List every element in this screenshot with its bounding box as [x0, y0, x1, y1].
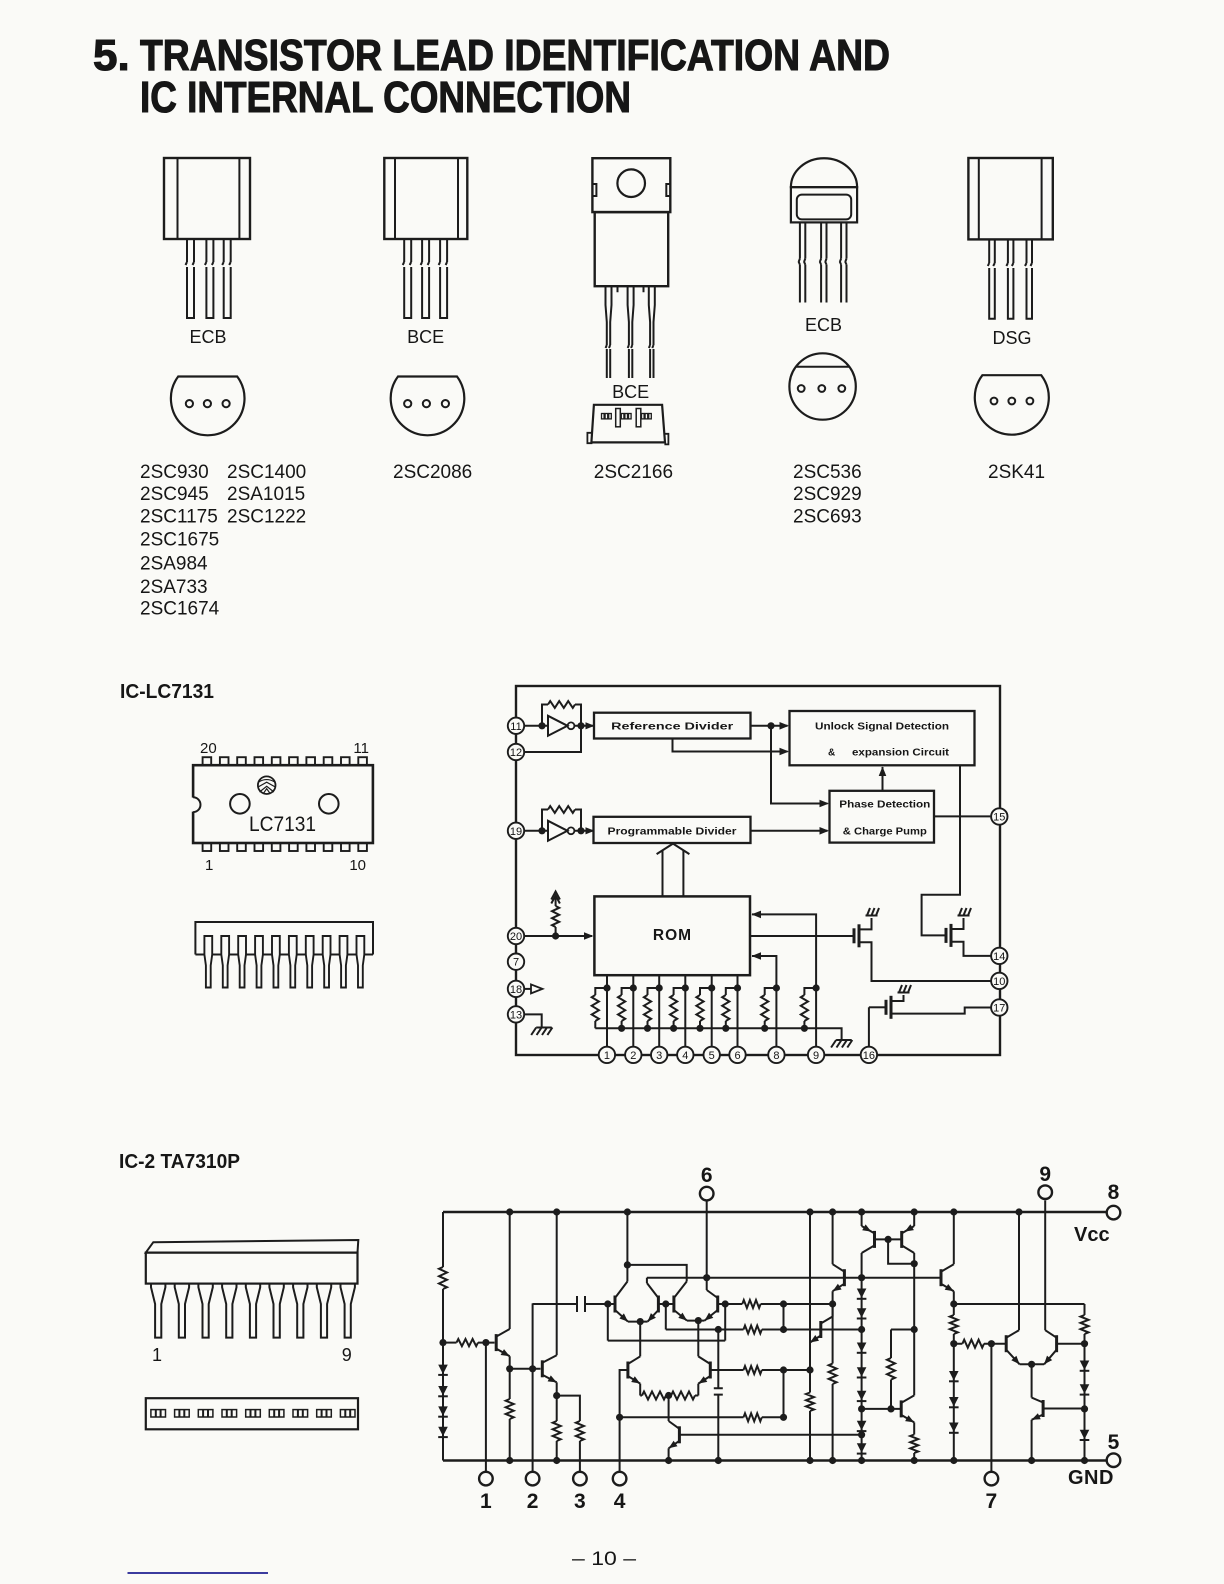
svg-text:20: 20 — [510, 931, 522, 943]
svg-text:8: 8 — [773, 1050, 779, 1062]
wire Q9 emitter to GND — [665, 1448, 672, 1464]
transistor Q1 — [496, 1329, 510, 1356]
block Reference Divider — [594, 713, 751, 739]
svg-text:2SC536: 2SC536 — [793, 462, 862, 483]
cross-coupling wire Q3 base to Q6 base — [608, 1304, 725, 1341]
svg-text:8: 8 — [1108, 1181, 1120, 1204]
svg-text:IC-LC7131: IC-LC7131 — [120, 681, 214, 703]
wire Reference Divider output to Unlock block — [751, 722, 790, 730]
svg-text:Unlock Signal Detection: Unlock Signal Detection — [815, 722, 949, 733]
TO-92 bottom view (ECB group) — [171, 377, 245, 436]
svg-text:1: 1 — [205, 857, 213, 874]
part label 2SK41 — [988, 462, 1045, 483]
right resistor R18 and diodes D15-D17 — [1080, 1304, 1090, 1464]
pin 9 wire into ROM — [752, 911, 820, 1047]
block diagram pin circles — [508, 718, 1008, 1064]
svg-text:2SC2166: 2SC2166 — [594, 462, 673, 483]
part label 2SC2166 — [594, 462, 673, 483]
pin 7 stem — [990, 1344, 992, 1472]
part list column 1 — [140, 462, 220, 620]
svg-text:2SC929: 2SC929 — [793, 484, 862, 505]
wire quad B emitter node down — [697, 1321, 699, 1357]
output pair Q16 Q17 — [1006, 1330, 1088, 1368]
feedback network resistor R16 — [887, 1326, 918, 1413]
pull-up resistor with supply arrow at pin 20 input — [551, 892, 560, 940]
wire pin 12 to inverter output — [524, 726, 581, 752]
MOSFET Q2 — [946, 908, 992, 956]
wire Q12 collector to Vcc — [829, 1208, 836, 1264]
svg-text:2: 2 — [630, 1050, 636, 1062]
transistor Q5 (quad third) — [674, 1282, 705, 1325]
svg-text:3: 3 — [574, 1490, 586, 1513]
svg-text:GND: GND — [1068, 1467, 1114, 1489]
transistor Q4 (quad second) — [647, 1283, 659, 1322]
transistor Q12 — [833, 1264, 845, 1291]
svg-text:& Charge Pump: & Charge Pump — [843, 827, 927, 838]
wire Q1 emitter node — [506, 1356, 540, 1372]
svg-text:Phase Detection: Phase Detection — [839, 800, 930, 811]
wire Q2 emitter node — [553, 1382, 580, 1421]
pin 6 collector line — [647, 1274, 941, 1281]
wire Unlock block to MOSFET Q2 gate — [922, 765, 960, 935]
wire Q6 base to R1 — [718, 1300, 743, 1307]
bottom view (2SC536 group) — [789, 353, 855, 419]
svg-text:1: 1 — [152, 1345, 162, 1365]
svg-text:IC INTERNAL CONNECTION: IC INTERNAL CONNECTION — [140, 73, 631, 122]
svg-text:ROM: ROM — [653, 927, 692, 944]
svg-text:2SA733: 2SA733 — [140, 577, 208, 598]
svg-text:Vcc: Vcc — [1074, 1224, 1110, 1246]
pull-down resistor ladder — [592, 988, 842, 1039]
svg-text:DSG: DSG — [992, 328, 1031, 348]
wire R1/R2 right ends tie — [783, 1304, 785, 1330]
block Unlock Signal Detection & expansion Circuit — [790, 711, 975, 765]
svg-text:2SC2086: 2SC2086 — [393, 462, 472, 483]
svg-text:expansion Circuit: expansion Circuit — [852, 748, 950, 759]
wire Q7 collector to quad A node — [639, 1322, 641, 1357]
base line with resistor R5 to Q8 — [710, 1366, 813, 1374]
svg-text:2: 2 — [527, 1490, 539, 1513]
page number — [572, 1549, 637, 1570]
svg-text:2SC945: 2SC945 — [140, 484, 209, 505]
svg-text:3: 3 — [656, 1050, 662, 1062]
block Programmable Divider — [594, 817, 751, 843]
ROM output wire to MOSFET Q1 gate — [750, 935, 853, 937]
svg-text:1: 1 — [480, 1490, 492, 1513]
transistor Q9 current source — [669, 1396, 680, 1449]
transistor Q7 (diff pair left) — [628, 1356, 640, 1383]
svg-text:ECB: ECB — [805, 315, 842, 335]
transistor package dome front view (2SC536 group) — [791, 158, 857, 302]
svg-text:9: 9 — [1039, 1163, 1051, 1186]
capacitor C2 to GND — [714, 1330, 723, 1465]
TA7310P GND rail — [443, 1459, 1107, 1462]
transistor package TO-220 front view (2SC2166) — [592, 158, 670, 378]
svg-text:13: 13 — [510, 1009, 522, 1021]
TO-220 bottom view (2SC2166) — [587, 405, 668, 445]
resistor R11 to Q1 base — [443, 1339, 495, 1346]
big bus arrow ROM to Programmable Divider — [657, 844, 690, 897]
inverter/oscillator buffer at pin 11 with feedback resistor — [524, 701, 595, 736]
svg-text:6: 6 — [701, 1164, 713, 1187]
svg-text:12: 12 — [510, 747, 522, 759]
svg-text:Programmable Divider: Programmable Divider — [608, 827, 737, 838]
wire R5/R6 right ends tie — [783, 1370, 785, 1417]
resistor R14 to pin 3 — [576, 1421, 584, 1472]
svg-text:BCE: BCE — [407, 327, 444, 347]
wire Programmable Divider output to Phase Detection — [751, 827, 830, 835]
svg-text:2SA984: 2SA984 — [140, 554, 208, 575]
svg-text:5: 5 — [1108, 1431, 1120, 1454]
resistor R9 Q14 emitter — [950, 1304, 958, 1347]
transistor Q3 (quad left) — [615, 1282, 648, 1326]
wire Q4/Q5 base tie — [658, 1300, 674, 1329]
svg-text:LC7131: LC7131 — [249, 813, 316, 836]
pin 9 stem to Q17 collector — [1044, 1200, 1046, 1330]
svg-text:17: 17 — [993, 1003, 1005, 1015]
resistor R15 to output pair base — [954, 1340, 1006, 1348]
pin 1 stem — [485, 1343, 487, 1472]
svg-text:2SC930: 2SC930 — [140, 462, 209, 483]
svg-text:5: 5 — [709, 1050, 715, 1062]
LC7131 block diagram outer boundary — [516, 686, 1000, 1055]
svg-text:15: 15 — [993, 812, 1005, 824]
svg-text:9: 9 — [342, 1345, 352, 1365]
svg-text:11: 11 — [510, 721, 521, 733]
PNP current mirror Q10 Q11 — [858, 1208, 918, 1395]
svg-text:6: 6 — [734, 1050, 740, 1062]
part label 2SC2086 — [393, 462, 472, 483]
ground at resistor ladder bus — [831, 1040, 852, 1048]
transistor Q18 — [1028, 1364, 1085, 1464]
label ECB — [189, 327, 226, 347]
transistor package TO-92 front view (2SC2086) — [384, 158, 467, 318]
svg-text:4: 4 — [682, 1050, 688, 1062]
diode string D1-D4 — [438, 1365, 448, 1438]
wire Q14 collector to Vcc — [950, 1208, 957, 1264]
TA7310P pin circles and labels — [479, 1163, 1120, 1513]
inner base line with resistor R2 — [666, 1326, 865, 1334]
MOSFET Q3 — [869, 985, 992, 1047]
wire Vcc to Q13 emitter and resistor R8 — [806, 1208, 814, 1464]
svg-text:4: 4 — [614, 1490, 626, 1513]
pin 6 stem — [706, 1200, 708, 1277]
transistor Q8 (diff pair right) — [698, 1356, 710, 1383]
pin 2 stem — [532, 1303, 534, 1471]
wire Q3 collector to Vcc — [624, 1208, 631, 1281]
wire pin 13 to ground — [524, 1014, 542, 1026]
svg-text:2SC1222: 2SC1222 — [227, 507, 306, 528]
svg-text:1: 1 — [604, 1050, 610, 1062]
IC LC7131 DIP-20 top view — [191, 740, 373, 874]
section label IC-LC7131 — [120, 681, 214, 703]
label DSG — [992, 328, 1031, 348]
block ROM — [594, 896, 750, 975]
section label IC-2 TA7310P — [119, 1151, 240, 1173]
TO-92 bottom view (2SC2086) — [391, 377, 465, 436]
IC LC7131 DIP-20 side view — [195, 922, 373, 988]
wire Q9 base to bias chain — [679, 1431, 865, 1438]
transistor package front view (2SK41) — [968, 158, 1052, 319]
label BCE — [407, 327, 444, 347]
open arrow at pin 18 — [524, 984, 543, 993]
svg-text:5.: 5. — [93, 31, 130, 80]
svg-text:IC-2 TA7310P: IC-2 TA7310P — [119, 1151, 240, 1173]
svg-text:14: 14 — [993, 951, 1005, 963]
wire collector cross-tie to Q5 — [627, 1265, 686, 1282]
bottom view (2SK41) — [975, 375, 1049, 434]
transistor Q13 — [810, 1317, 833, 1343]
emitter degeneration resistors R3 R4 — [640, 1384, 698, 1400]
resistor R13 Q2 emitter to GND — [553, 1396, 561, 1465]
wire Q16 collector to Vcc — [1015, 1208, 1022, 1330]
svg-text:2SC1400: 2SC1400 — [227, 462, 306, 483]
transistor Q6 (quad right) — [705, 1290, 718, 1321]
svg-text:10: 10 — [993, 976, 1005, 988]
svg-text:– 10 –: – 10 – — [572, 1549, 637, 1570]
transistor Q15 — [858, 1395, 914, 1422]
svg-text:2SC1175: 2SC1175 — [140, 507, 218, 528]
line with resistor R6 to pin 4 — [620, 1413, 788, 1421]
svg-text:10: 10 — [349, 857, 366, 874]
ROM output column wires to pins 1-6 — [603, 975, 741, 1046]
pin 8 wire into ROM — [752, 952, 781, 1046]
resistor R7 to GND — [829, 1304, 837, 1464]
svg-text:11: 11 — [353, 740, 369, 757]
svg-text:18: 18 — [510, 984, 522, 996]
bottom blue rule — [128, 1572, 269, 1574]
svg-text:7: 7 — [513, 957, 519, 969]
block Phase Detection & Charge Pump — [830, 791, 935, 843]
resistor R1 — [742, 1300, 832, 1308]
ground at pin 13 — [531, 1028, 552, 1036]
svg-text:2SC1675: 2SC1675 — [140, 530, 219, 551]
label ECB — [805, 315, 842, 335]
svg-text:9: 9 — [813, 1050, 819, 1062]
svg-text:7: 7 — [986, 1490, 998, 1513]
TA7310P Vcc rail — [443, 1211, 1107, 1214]
TA7310P SIP-9 package bottom view — [146, 1398, 358, 1429]
transistor Q14 — [941, 1264, 954, 1291]
wire Q12 emitter node — [829, 1291, 836, 1307]
svg-text:20: 20 — [200, 740, 217, 757]
pin 4 stem — [616, 1370, 628, 1472]
wire Q13 collector — [832, 1304, 834, 1317]
wire Q6 collector to pin 6 node — [706, 1278, 708, 1290]
wire Q1 collector to Vcc — [506, 1208, 513, 1329]
MOSFET Q1 — [854, 908, 992, 981]
wire divider node to Phase Detection — [771, 726, 829, 808]
svg-text:BCE: BCE — [612, 382, 649, 402]
svg-text:&: & — [828, 748, 835, 759]
wire Reference Divider bottom tap to Unlock block — [673, 739, 790, 756]
part list column 2 — [227, 462, 306, 528]
coupling capacitor C1 — [533, 1296, 614, 1312]
transistor package TO-92 front view (ECB group) — [164, 158, 250, 318]
page title — [93, 31, 890, 122]
transistor Q2 — [542, 1355, 556, 1382]
wire pin 20 to ROM — [524, 932, 594, 940]
left edge wire with resistor R10 — [439, 1212, 447, 1461]
resistor R12 Q1 emitter to GND — [506, 1369, 514, 1464]
wire Q2 collector to Vcc — [553, 1208, 560, 1355]
svg-text:19: 19 — [510, 826, 522, 838]
svg-text:2SC1674: 2SC1674 — [140, 599, 220, 620]
wire Phase Detection to pin 15 — [934, 815, 990, 817]
label BCE — [612, 382, 649, 402]
wire Phase Detection to Unlock block — [879, 767, 887, 791]
bias diode chain D5-D11 — [857, 1278, 867, 1464]
resistor R17 Q15 emitter to GND — [910, 1422, 918, 1464]
svg-text:2SA1015: 2SA1015 — [227, 484, 305, 505]
svg-text:2SC693: 2SC693 — [793, 507, 862, 528]
part list 2SC536 group — [793, 462, 862, 528]
wire Q14 emitter line to right — [950, 1291, 1084, 1307]
diodes D12-D14 — [949, 1344, 959, 1464]
svg-text:2SK41: 2SK41 — [988, 462, 1045, 483]
wire Q4 collector to pin 6 line — [646, 1278, 648, 1283]
svg-text:ECB: ECB — [189, 327, 226, 347]
svg-text:Reference Divider: Reference Divider — [611, 722, 733, 733]
svg-text:16: 16 — [863, 1050, 875, 1062]
TA7310P SIP-9 package front view — [146, 1240, 358, 1365]
inverter/oscillator buffer at pin 19 with feedback resistor — [524, 806, 595, 841]
